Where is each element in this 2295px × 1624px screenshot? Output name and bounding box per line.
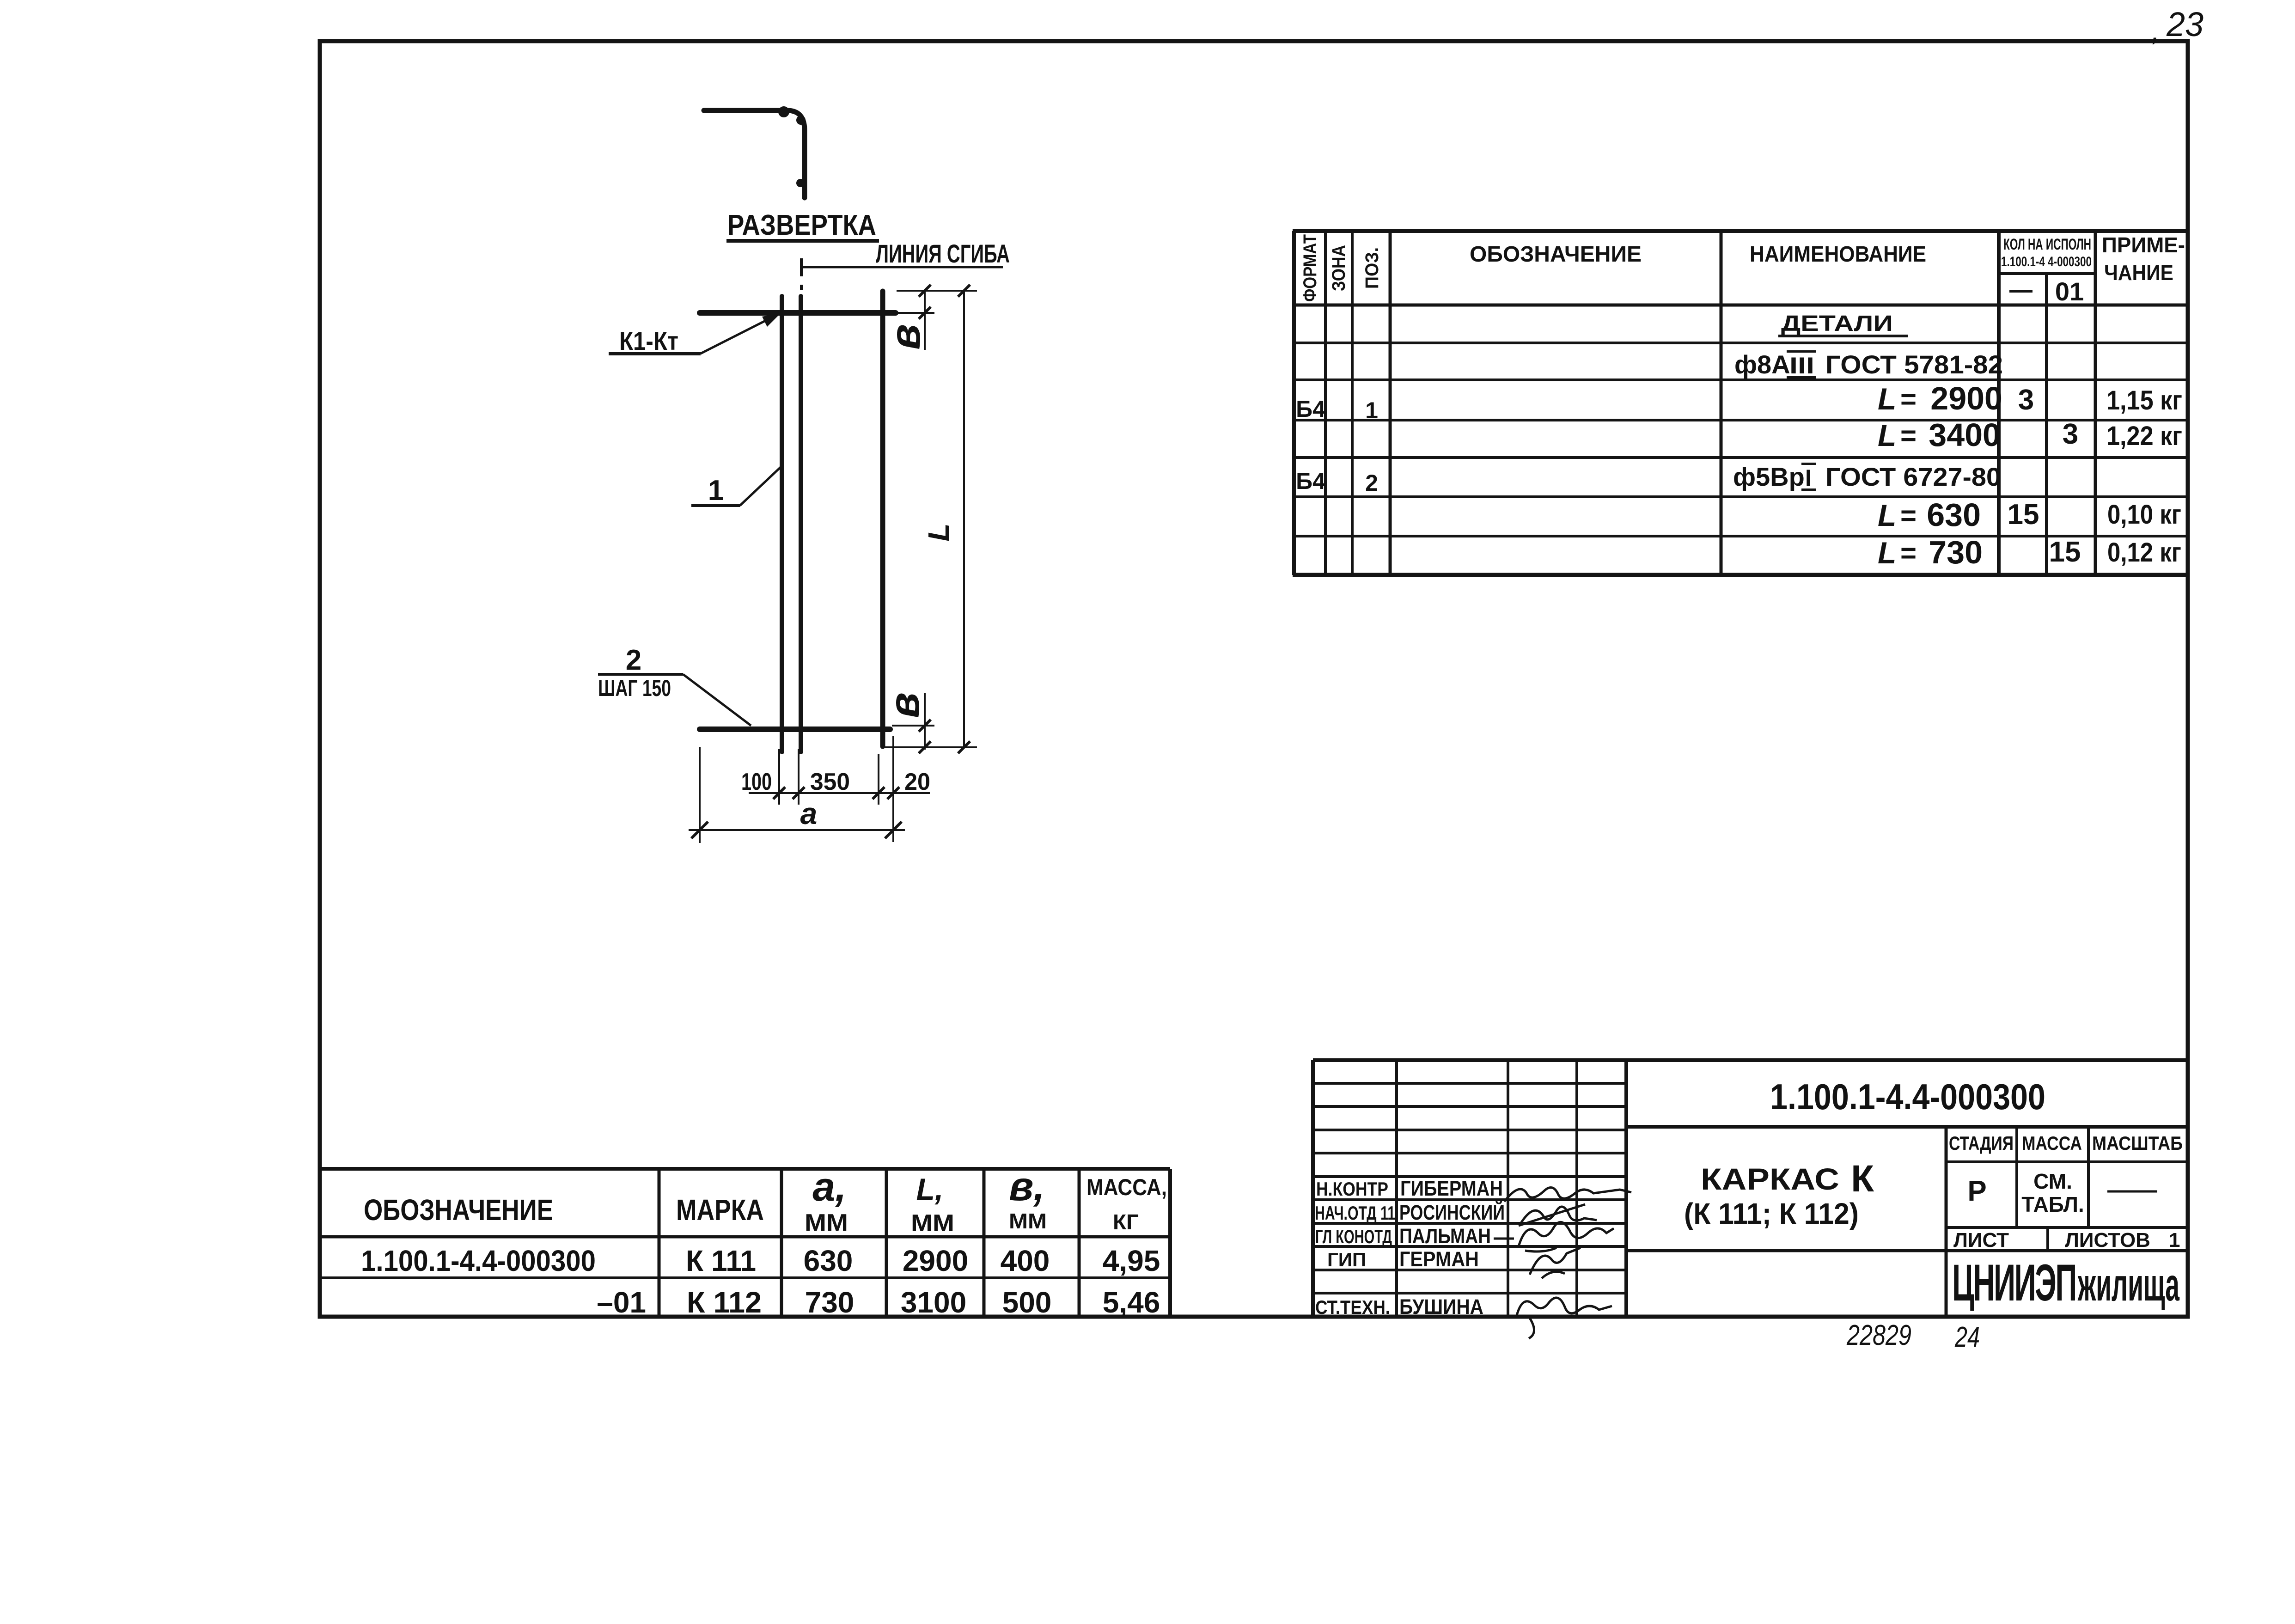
svg-text:3400: 3400 [1929,417,2001,453]
svg-text:КГ: КГ [1113,1210,1139,1234]
svg-text:МАССА,: МАССА, [1086,1174,1167,1200]
spec header 01 [2055,277,2084,306]
marks table grid [320,1169,1170,1317]
svg-text:К1-Кт: К1-Кт [619,326,678,355]
svg-text:2900: 2900 [1930,380,2002,416]
svg-text:(К 111; К 112): (К 111; К 112) [1684,1197,1859,1230]
marks header Oboznachenie [364,1193,553,1227]
svg-text:Р: Р [1967,1175,1986,1207]
svg-text:ф8А: ф8А [1734,350,1790,379]
svg-text:ГИП: ГИП [1327,1249,1366,1270]
title block Listov 1 [2065,1229,2180,1252]
signature Giberman [1504,1187,1631,1202]
title block document number [1770,1076,2045,1117]
svg-text:24: 24 [1954,1321,1980,1353]
dimension v bottom text [881,692,928,718]
svg-text:a: a [800,796,818,830]
spec row B4 poz2 [1296,468,1378,496]
svg-text:ЗОНА: ЗОНА [1329,245,1349,291]
svg-text:ГИБЕРМАН: ГИБЕРМАН [1400,1177,1503,1200]
title block organization TsNIIEPzhilishcha [1952,1254,2180,1312]
svg-text:ДЕТАЛИ: ДЕТАЛИ [1781,311,1893,336]
title block value Sm Tabl [2021,1169,2084,1216]
spec header dash [2009,290,2033,293]
title block header Stadiya [1949,1132,2014,1154]
dimension v bottom [884,693,977,753]
spec header Primechanie [2102,233,2185,285]
spec row L=730 qty 15 mass 0,12 [1878,534,2181,570]
spec row L=630 qty 15 mass 0,10 [1878,497,2181,533]
svg-text:ММ: ММ [1009,1209,1047,1233]
svg-text:ЛИСТ: ЛИСТ [1953,1229,2009,1252]
svg-text:ЛИНИЯ СГИБА: ЛИНИЯ СГИБА [876,239,1010,268]
svg-text:0,12 кг: 0,12 кг [2107,537,2181,568]
dimension L line [958,285,970,753]
spec header Format [1300,234,1320,302]
svg-text:в,: в, [1009,1163,1045,1209]
svg-text:L: L [922,523,955,541]
svg-text:ОБОЗНАЧЕНИЕ: ОБОЗНАЧЕНИЕ [364,1193,553,1227]
longitudinal bar on fold line [799,296,803,752]
svg-text:К 112: К 112 [687,1286,762,1319]
svg-text:К 111: К 111 [686,1244,756,1277]
svg-text:=: = [1900,384,1917,415]
svg-text:5,46: 5,46 [1103,1286,1160,1319]
svg-text:L: L [1878,382,1896,416]
svg-text:630: 630 [1927,497,1981,533]
svg-text:ПАЛЬМАН: ПАЛЬМАН [1399,1224,1491,1248]
svg-text:ГЕРМАН: ГЕРМАН [1399,1247,1479,1271]
svg-text:МАССА: МАССА [2022,1132,2082,1154]
svg-text:НАЧ.ОТД 11: НАЧ.ОТД 11 [1315,1202,1395,1224]
dimension v top [897,285,977,350]
svg-text:1: 1 [708,475,724,507]
signature German [1530,1248,1581,1278]
marks header Massa kg [1086,1174,1167,1234]
dimension line 100 350 20 [749,787,930,799]
handwritten number 22829 [1846,1319,1911,1351]
svg-text:01: 01 [2055,277,2084,306]
page number 23 [2152,5,2203,47]
svg-text:ЦНИИЭП: ЦНИИЭП [1952,1254,2076,1312]
svg-text:ГОСТ 5781-82: ГОСТ 5781-82 [1825,350,2003,379]
fold line dash-dot [800,285,803,290]
spec row f8AIII GOST 5781-82 [1734,350,2003,379]
svg-text:2900: 2900 [903,1244,968,1277]
svg-text:ШАГ 150: ШАГ 150 [598,675,671,701]
svg-text:ГОСТ 6727-80: ГОСТ 6727-80 [1825,462,2001,491]
title block name Karkas K [1684,1158,1874,1230]
svg-text:I: I [1805,465,1812,491]
svg-text:400: 400 [1001,1244,1050,1277]
svg-text:=: = [1900,420,1917,451]
svg-text:БУШИНА: БУШИНА [1399,1295,1483,1319]
stamp row GIP German [1327,1247,1479,1271]
signature Bushina [1517,1298,1612,1338]
stamp row Nach.otd 11 Rosinskiy [1315,1201,1505,1224]
spec header Poz [1362,247,1382,289]
svg-text:Н.КОНТР: Н.КОНТР [1316,1178,1388,1200]
svg-text:СМ.: СМ. [2033,1169,2072,1193]
dimension v top text [882,324,929,350]
svg-text:1,22 кг: 1,22 кг [2106,421,2182,451]
dimension a text [800,796,818,830]
title block stamp grid [1313,1060,2188,1317]
svg-text:22829: 22829 [1846,1319,1911,1351]
svg-text:23: 23 [2166,5,2203,43]
svg-text:III: III [1789,353,1814,379]
spec header Naimenovanie [1750,242,1926,267]
marks header a mm [805,1164,848,1236]
spec header Kol na ispoln [2001,236,2092,269]
dimension text 350 [810,769,850,795]
dimension a [689,747,905,843]
svg-text:L: L [1878,498,1896,532]
svg-text:=: = [1900,537,1917,568]
svg-text:ф5Вр: ф5Вр [1733,462,1805,491]
marks row K112 [597,1286,1160,1319]
svg-text:КОЛ НА ИСПОЛН: КОЛ НА ИСПОЛН [2003,236,2091,253]
title block right grid [1626,1127,2188,1317]
svg-text:1.100.1-4.4-000300: 1.100.1-4.4-000300 [361,1244,596,1277]
spec header Oboznachenie [1470,242,1642,267]
bent bar K1 cross-section view [704,106,806,198]
svg-text:,: , [2152,16,2160,47]
svg-text:L,: L, [916,1172,944,1206]
svg-text:ФОРМАТ: ФОРМАТ [1300,234,1320,302]
svg-text:L: L [1878,536,1896,570]
svg-text:=: = [1900,500,1917,531]
svg-text:ЛИСТОВ1: ЛИСТОВ1 [2065,1229,2180,1252]
svg-text:3: 3 [2018,384,2034,416]
bottom dimension extension lines [779,736,893,842]
svg-text:–01: –01 [597,1286,646,1319]
title block header Masshtab [2092,1132,2183,1154]
svg-text:100: 100 [741,769,772,795]
svg-text:ТАБЛ.: ТАБЛ. [2021,1192,2084,1216]
spec row L=2900 qty 3 mass 1,15 [1878,380,2182,416]
position label 2 step 150 with leader [598,644,751,726]
view title Razvertka [726,209,879,243]
svg-text:жилища: жилища [2077,1259,2179,1311]
longitudinal bar right [880,291,885,746]
svg-text:в: в [882,324,929,350]
svg-text:2: 2 [1365,470,1378,496]
stamp row N.KONTR Giberman [1316,1177,1503,1200]
svg-text:350: 350 [810,769,850,795]
svg-text:ПРИМЕ-: ПРИМЕ- [2102,233,2185,257]
svg-text:ОБОЗНАЧЕНИЕ: ОБОЗНАЧЕНИЕ [1470,242,1642,267]
svg-text:1,15 кг: 1,15 кг [2106,385,2182,415]
svg-text:1: 1 [1365,397,1378,423]
svg-text:Б4: Б4 [1296,468,1325,494]
svg-text:730: 730 [805,1286,855,1319]
sheet frame [320,41,2188,1317]
dimension text 100 [741,769,772,795]
svg-text:К: К [1851,1158,1874,1200]
svg-text:СТ.ТЕХН.: СТ.ТЕХН. [1315,1296,1390,1318]
svg-text:L: L [1878,418,1896,452]
svg-text:РАЗВЕРТКА: РАЗВЕРТКА [727,209,876,241]
svg-text:ЧАНИЕ: ЧАНИЕ [2104,261,2173,285]
svg-text:Б4: Б4 [1296,396,1325,422]
dimension text 20 [904,769,930,795]
svg-text:ПОЗ.: ПОЗ. [1362,247,1382,289]
svg-text:ГЛ КОНОТД: ГЛ КОНОТД [1315,1226,1392,1247]
spec row f5VrI GOST 6727-80 [1733,462,2001,491]
svg-text:3: 3 [2063,418,2078,450]
marks row K111 [361,1244,1160,1277]
title block List [1953,1229,2009,1252]
longitudinal bar left [780,296,784,752]
specification table grid [1293,231,2188,575]
svg-text:ММ: ММ [911,1210,954,1237]
label Liniya sgiba [801,239,1010,276]
svg-text:15: 15 [2049,536,2081,568]
svg-text:2: 2 [626,644,641,676]
handwritten number 24 [1954,1321,1980,1353]
marks header v mm [1009,1163,1047,1233]
svg-text:МАСШТАБ: МАСШТАБ [2092,1132,2183,1154]
svg-text:0,10 кг: 0,10 кг [2107,500,2181,530]
stamp row ST.TEKHN Bushina [1315,1295,1483,1319]
svg-text:4,95: 4,95 [1103,1244,1160,1277]
spec row B4 poz1 [1296,396,1378,423]
spec row Detali [1778,311,1908,337]
svg-text:20: 20 [904,769,930,795]
signature Rosinskiy [1519,1204,1597,1226]
svg-text:630: 630 [804,1244,853,1277]
marks header Marka [676,1193,764,1227]
svg-text:СТАДИЯ: СТАДИЯ [1949,1132,2014,1154]
label K1-Kt with leader arrow [609,313,781,355]
bottom cross bar [700,727,890,732]
title block header Massa [2022,1132,2082,1154]
svg-text:730: 730 [1929,534,1983,570]
title block value dash [2107,1191,2157,1193]
svg-text:КАРКАС: КАРКАС [1701,1162,1839,1196]
signature Palman [1494,1222,1614,1252]
dimension L text [922,523,955,541]
svg-text:ММ: ММ [805,1209,848,1236]
top cross bar [700,310,896,316]
spec header Zona [1329,245,1349,291]
svg-text:3100: 3100 [901,1286,966,1319]
marks header L mm [911,1172,954,1237]
svg-text:РОСИНСКИЙ: РОСИНСКИЙ [1399,1201,1505,1224]
svg-text:1.100.1-4.4-000300: 1.100.1-4.4-000300 [1770,1076,2045,1117]
svg-text:МАРКА: МАРКА [676,1193,764,1227]
svg-text:1.100.1-4 4-000300: 1.100.1-4 4-000300 [2001,254,2092,269]
spec row L=3400 qty 3 mass 1,22 [1878,417,2182,453]
svg-text:500: 500 [1002,1286,1052,1319]
svg-text:15: 15 [2008,499,2039,531]
svg-text:в: в [881,692,928,718]
position label 1 with leader [691,466,781,507]
title block value P [1967,1175,1986,1207]
svg-text:НАИМЕНОВАНИЕ: НАИМЕНОВАНИЕ [1750,242,1926,267]
svg-text:a,: a, [812,1164,846,1209]
stamp row Gl.konotd Palman [1315,1224,1491,1248]
